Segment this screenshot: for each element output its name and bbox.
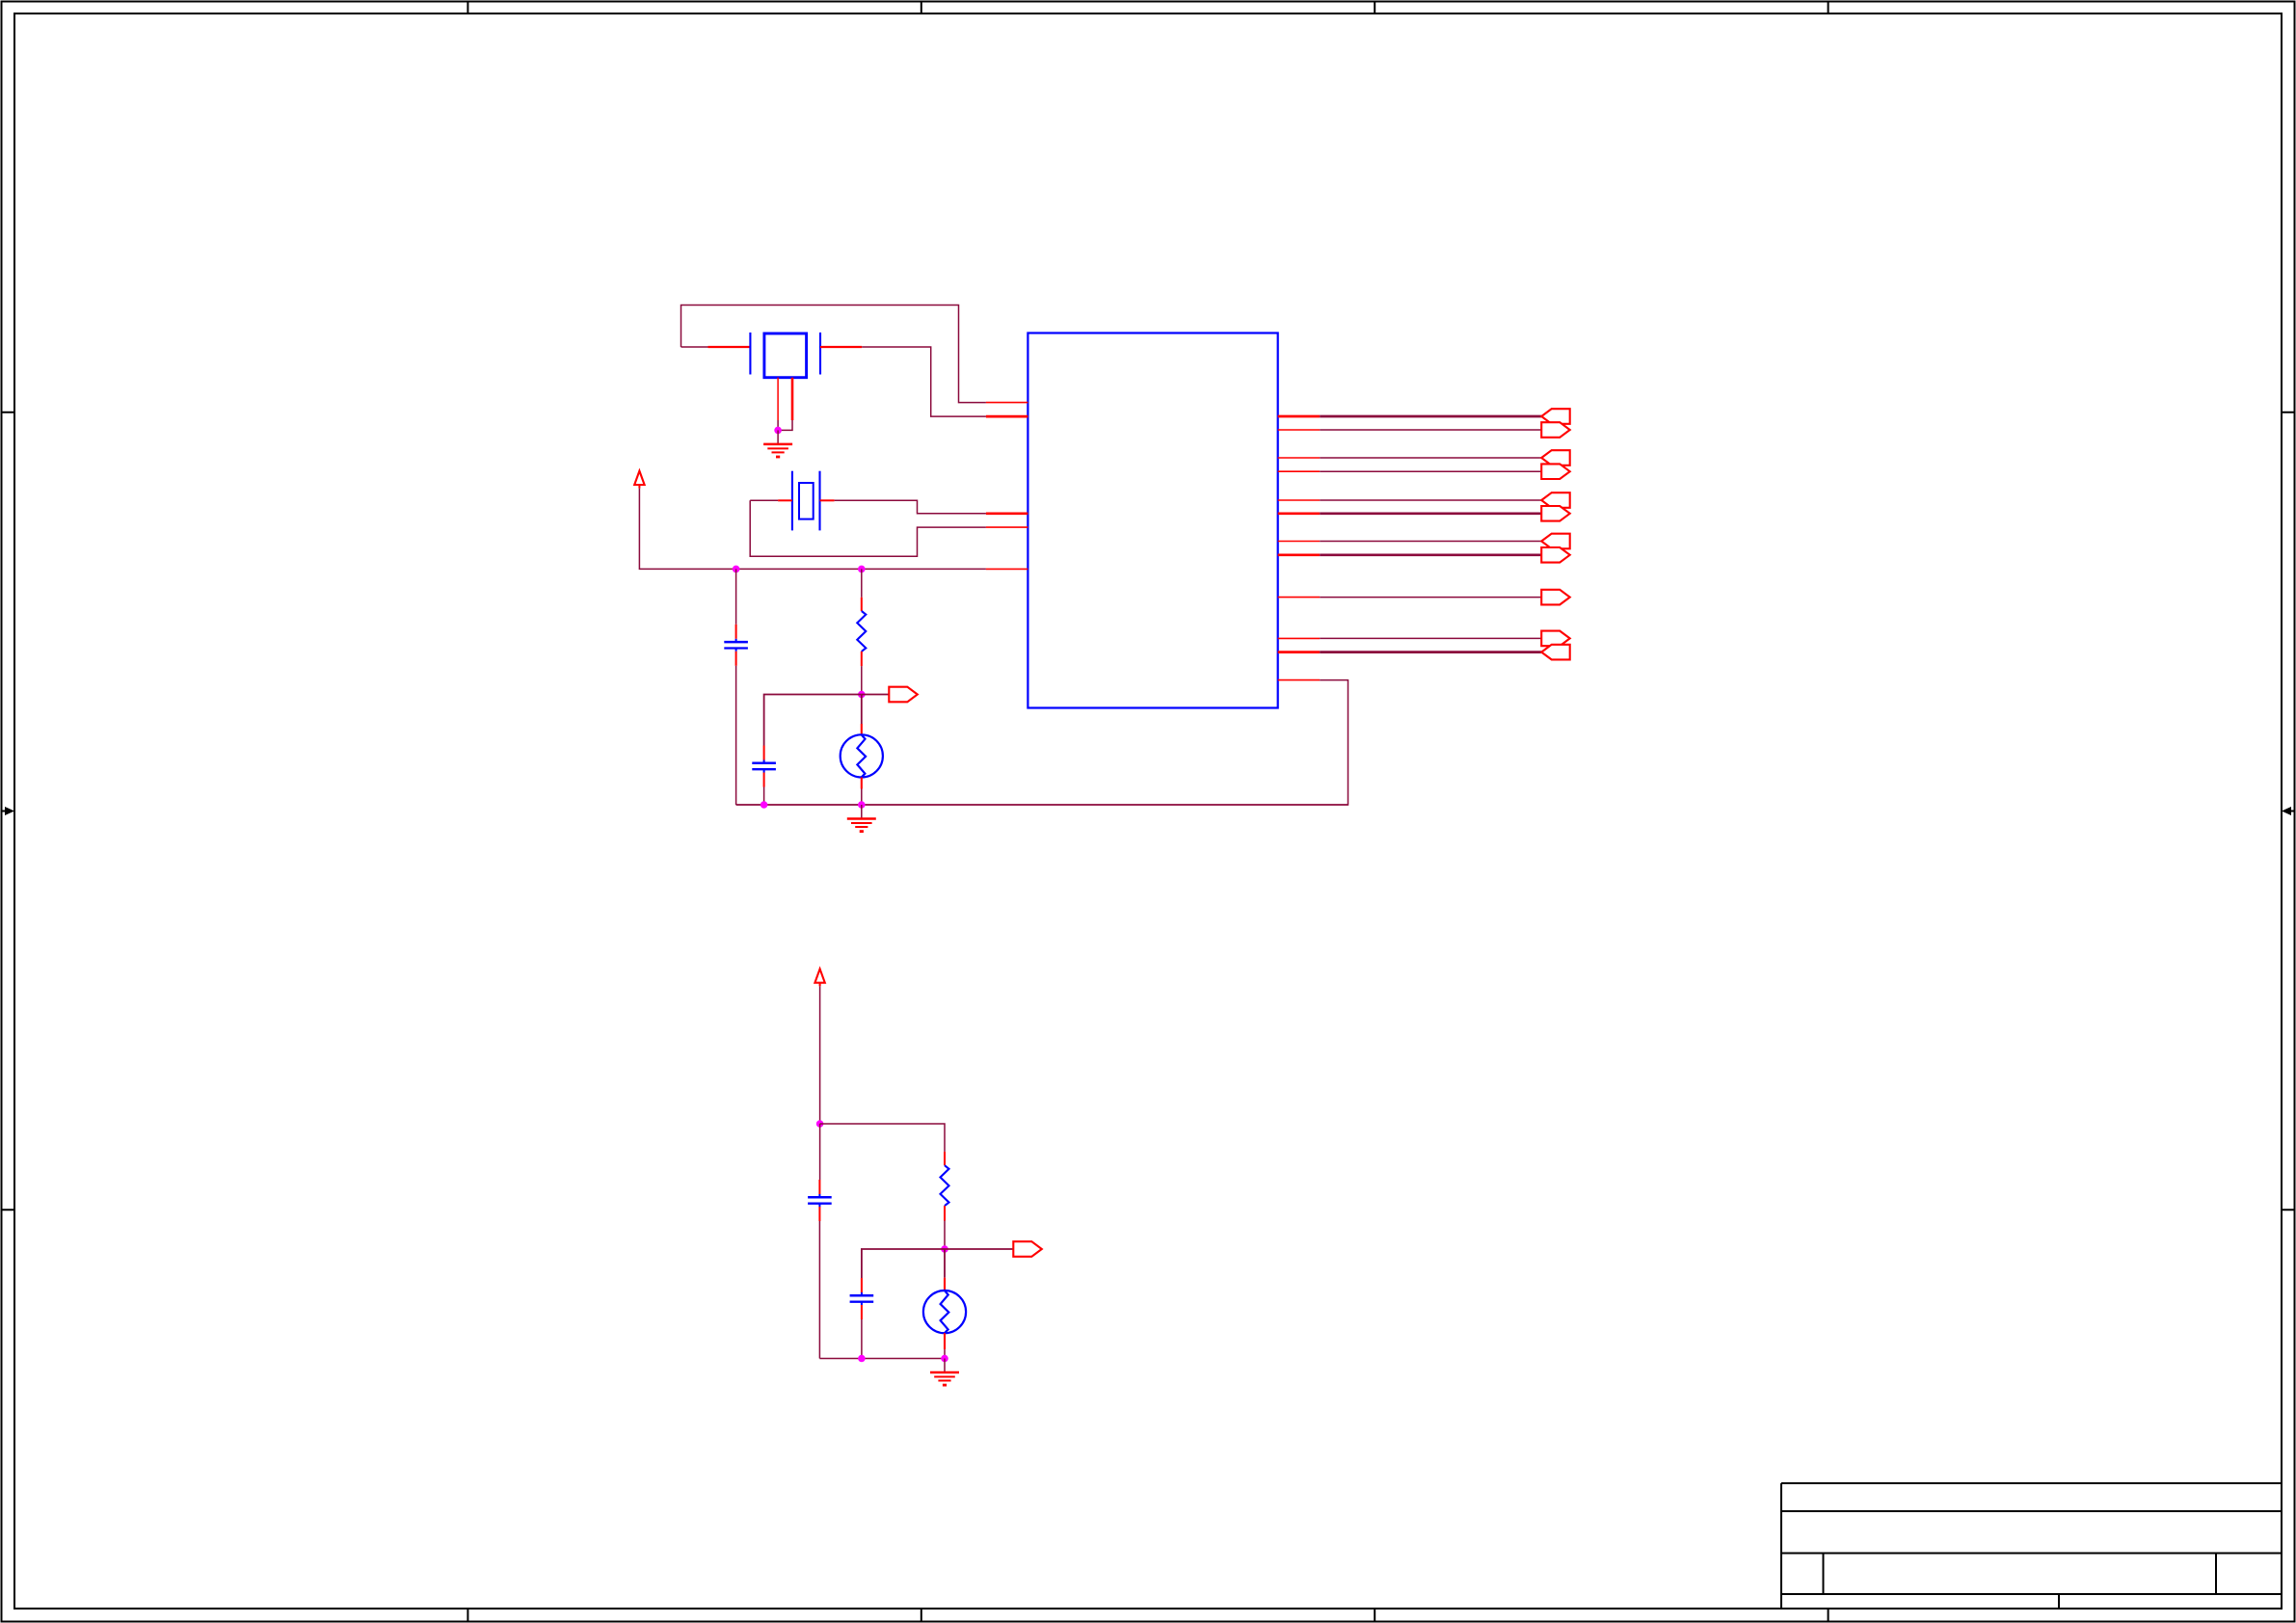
resistor R2: [941, 1152, 949, 1249]
junction B: [733, 566, 740, 573]
wire bottom bus 2: [819, 1358, 945, 1360]
wire pin17 loop to bottom bus: [736, 680, 1348, 805]
wire bottom bus: [736, 804, 1348, 806]
pin 1 (U1 left): [986, 402, 1028, 404]
ground GND3: [930, 1359, 959, 1386]
port P10: [1541, 631, 1570, 647]
wire net5 to port: [1320, 499, 1541, 501]
wire net7 to port: [1320, 541, 1541, 543]
port P1: [1541, 409, 1570, 424]
wire net3 to port: [1320, 457, 1541, 459]
pin 13 (U1 right): [1278, 553, 1321, 556]
junction H: [941, 1245, 948, 1253]
port P3: [1541, 450, 1570, 466]
port P5: [1541, 492, 1570, 508]
wire net10 to port: [1320, 637, 1541, 639]
pin 6 (U1 right): [1278, 415, 1321, 418]
wire net8 to port: [1320, 553, 1541, 556]
wire junction G to R2: [820, 1124, 945, 1152]
port P9: [1541, 590, 1570, 605]
pin 14 (U1 right): [1278, 597, 1321, 599]
port P6: [1541, 506, 1570, 521]
Y1 pin 1 (bottom left): [777, 378, 779, 420]
capacitor C4: [850, 1278, 874, 1359]
junction J: [941, 1355, 948, 1363]
wire Y1 right lead to pin2: [820, 346, 862, 348]
crystal Y2: [792, 471, 820, 531]
port P12: [889, 687, 918, 703]
wire net9 to port: [1320, 597, 1541, 599]
pin 9 (U1 right): [1278, 470, 1321, 472]
wire VCC2 down: [819, 986, 821, 1124]
junction C: [858, 566, 866, 573]
pin 11 (U1 right): [1278, 512, 1321, 515]
wire Y1 feedback top loop to pin1: [681, 306, 986, 403]
pin 3 (U1 left): [986, 512, 1028, 515]
pin 16 (U1 right): [1278, 651, 1321, 653]
capacitor C1: [724, 569, 748, 805]
wire Y2 loop to pin4: [750, 500, 986, 556]
pin 8 (U1 right): [1278, 457, 1321, 459]
Y1 pin 2 (bottom right): [791, 378, 794, 420]
ground GND1: [763, 430, 792, 457]
junction G: [816, 1120, 824, 1128]
junction F: [858, 801, 866, 809]
port P7: [1541, 534, 1570, 549]
pin 15 (U1 right): [1278, 637, 1321, 639]
capacitor C3: [808, 1124, 832, 1359]
pin 4 (U1 left): [986, 526, 1028, 528]
IC U1: [1028, 333, 1277, 708]
pin 10 (U1 right): [1278, 499, 1321, 501]
thermistor RT1: [841, 695, 883, 806]
pin 12 (U1 right): [1278, 541, 1321, 543]
port P11: [1541, 645, 1570, 660]
crystal Y1: [750, 333, 820, 378]
pin 7 (U1 right): [1278, 429, 1321, 431]
port P2: [1541, 422, 1570, 438]
wire net1 to port: [1320, 415, 1541, 418]
junction I: [858, 1355, 866, 1363]
pin 17 (U1 right): [1278, 679, 1321, 681]
wire junction H to port P13: [945, 1248, 1013, 1250]
resistor R1: [857, 569, 866, 694]
capacitor C2: [752, 746, 776, 806]
wire Y2 right lead to pin3: [820, 499, 835, 501]
junction D: [858, 691, 866, 699]
port P13: [1013, 1241, 1042, 1257]
junction A: [774, 427, 782, 435]
TITLE BLOCK: [1781, 1483, 2282, 1609]
wire junction H to C4: [862, 1249, 945, 1278]
wire net11 to port: [1320, 651, 1541, 653]
junction E: [761, 801, 768, 809]
power VCC1: [634, 471, 644, 489]
ground GND2: [847, 805, 876, 832]
wire junction D to C2: [764, 695, 862, 746]
wire junction D to port P12: [862, 694, 890, 696]
wire Y1 left lead: [681, 346, 708, 348]
wire VCC1 bus to pin5: [639, 489, 986, 570]
pin 2 (U1 left): [986, 415, 1028, 418]
wire net6 to port: [1320, 512, 1541, 515]
wire Y2 left lead: [750, 499, 778, 501]
wire net4 to port: [1320, 470, 1541, 472]
port P4: [1541, 464, 1570, 479]
power VCC2: [814, 969, 824, 986]
pin 5 (U1 left): [986, 568, 1028, 570]
thermistor RT2: [923, 1249, 966, 1359]
port P8: [1541, 547, 1570, 563]
wire net2 to port: [1320, 429, 1541, 431]
